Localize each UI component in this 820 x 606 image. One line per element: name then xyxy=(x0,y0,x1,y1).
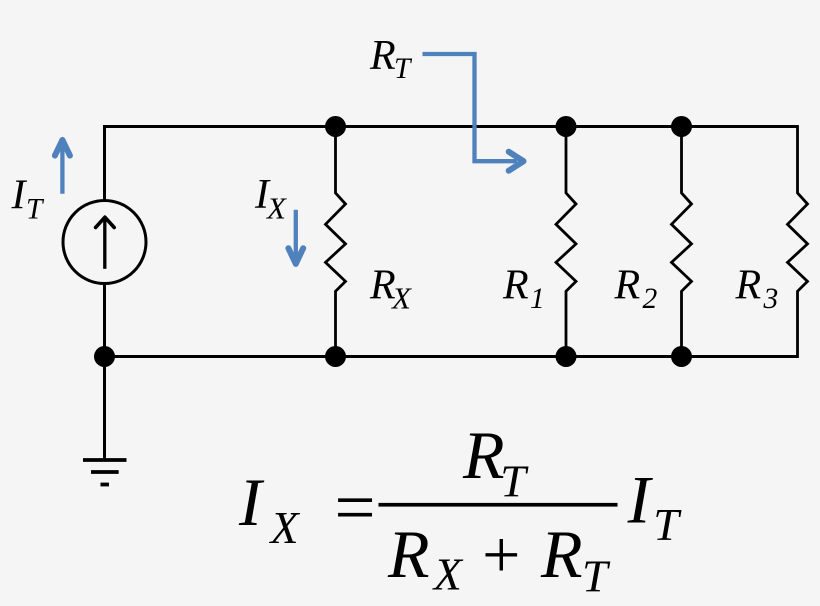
resistor RX branch (wire + zigzag) xyxy=(326,127,346,357)
svg-text:T: T xyxy=(500,456,529,507)
wire: from current source bottom to bottom bus xyxy=(103,284,106,357)
ground symbol xyxy=(83,460,127,485)
svg-text:2: 2 xyxy=(643,283,658,315)
wire: top bus from source to right edge xyxy=(105,125,798,128)
svg-text:X: X xyxy=(390,281,412,316)
junction dot bottom node RX xyxy=(325,346,346,367)
svg-text:T: T xyxy=(582,551,611,602)
svg-text:1: 1 xyxy=(530,283,545,315)
svg-text:R: R xyxy=(387,516,430,592)
svg-text:+: + xyxy=(478,516,524,592)
svg-text:I: I xyxy=(11,173,28,219)
wire: bottom bus from source to right edge xyxy=(105,355,798,358)
svg-text:R: R xyxy=(369,33,396,79)
junction dot bottom node source xyxy=(94,346,115,367)
blue RT pointer (elbow with right arrow) xyxy=(423,54,524,171)
svg-text:R: R xyxy=(502,263,529,309)
blue IT current arrow (up) xyxy=(55,140,70,194)
junction dot top node RX xyxy=(325,116,346,137)
blue IX current arrow (down) xyxy=(288,210,303,264)
formula fraction bar xyxy=(379,503,618,507)
junction dot bottom node R1 xyxy=(556,346,577,367)
junction dot top node R2 xyxy=(671,116,692,137)
svg-text:=: = xyxy=(330,467,379,548)
svg-text:X: X xyxy=(269,502,301,553)
resistor R1 branch (wire + zigzag) xyxy=(556,127,576,357)
svg-text:3: 3 xyxy=(763,283,779,315)
junction dot top node R1 xyxy=(556,116,577,137)
svg-text:I: I xyxy=(627,462,654,538)
svg-text:I: I xyxy=(238,464,265,540)
svg-text:X: X xyxy=(432,549,464,600)
junction dot bottom node R2 xyxy=(671,346,692,367)
svg-text:T: T xyxy=(394,53,413,85)
wire: ground stem xyxy=(103,357,106,460)
svg-text:T: T xyxy=(26,194,45,226)
svg-text:T: T xyxy=(653,499,682,550)
resistor R2 branch (wire + zigzag) xyxy=(672,127,692,357)
resistor R3 branch on right edge (wire + zigzag) xyxy=(788,125,808,358)
current source I1 circle xyxy=(63,201,146,284)
svg-text:R: R xyxy=(462,417,505,493)
svg-text:X: X xyxy=(265,191,287,226)
svg-text:R: R xyxy=(540,516,583,592)
wire: left vertical from top bus down to current source top xyxy=(103,125,106,201)
current source internal arrow xyxy=(96,217,115,269)
svg-text:R: R xyxy=(735,263,762,309)
svg-text:R: R xyxy=(614,263,641,309)
